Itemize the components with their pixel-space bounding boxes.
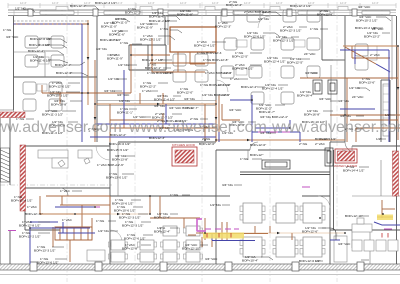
svg-text:BOP+10'-2 1/2": BOP+10'-2 1/2" [356, 19, 377, 23]
cabinets far right corridor [383, 84, 389, 136]
svg-text:BOP+12'-4": BOP+12'-4" [55, 63, 71, 67]
pipe VAC blue network [30, 24, 400, 264]
svg-text:BOP+16'-4": BOP+16'-4" [297, 94, 313, 98]
svg-text:BOP+12'-4": BOP+12'-4" [154, 216, 170, 220]
svg-text:3/4" VAC: 3/4" VAC [117, 93, 130, 97]
svg-text:12'-4": 12'-4" [212, 1, 219, 5]
svg-text:BOP+13'-2": BOP+13'-2" [364, 35, 380, 39]
svg-text:BOP+12'-4": BOP+12'-4" [226, 3, 242, 7]
svg-text:1/2" NG: 1/2" NG [15, 7, 26, 11]
svg-text:1" VAC: 1" VAC [142, 89, 153, 93]
columns on top wall [28, 9, 357, 16]
svg-text:1" NG BOP+12'-3: 1" NG BOP+12'-3 [197, 51, 222, 55]
svg-text:BOP+12'-4 1/2": BOP+12'-4 1/2" [232, 67, 253, 71]
svg-text:2" VAC: 2" VAC [370, 53, 381, 57]
chairs room top-centre cluster [173, 54, 208, 82]
svg-text:1" VAC: 1" VAC [27, 205, 38, 209]
svg-text:BOP+11'-6 1/2": BOP+11'-6 1/2" [30, 59, 51, 63]
svg-text:BOP+16'-6 1/2": BOP+16'-6 1/2" [109, 142, 130, 146]
svg-text:BOP+10'-4": BOP+10'-4" [242, 259, 258, 263]
grid line D [269, 2, 271, 282]
svg-text:3/4" NG: 3/4" NG [184, 97, 195, 101]
svg-text:1/2" NG: 1/2" NG [98, 229, 109, 233]
svg-text:12'-4": 12'-4" [148, 1, 155, 5]
svg-text:BOP+12'": BOP+12'" [250, 153, 263, 157]
svg-text:3/4" VAC: 3/4" VAC [6, 35, 19, 39]
svg-text:BOP+11'-8": BOP+11'-8" [177, 13, 193, 17]
svg-text:BOP+12'-8": BOP+12'-8" [122, 247, 138, 251]
svg-text:12'-4": 12'-4" [244, 1, 251, 5]
small desks bottom-centre-left rows [108, 226, 202, 262]
svg-text:3/4" NG: 3/4" NG [154, 104, 165, 108]
svg-text:BOP+12'-6 1/2": BOP+12'-6 1/2" [124, 237, 145, 241]
svg-text:1" NG: 1" NG [160, 27, 169, 31]
office desk top-bottom-left [38, 150, 92, 168]
svg-text:1" NG: 1" NG [310, 27, 319, 31]
svg-text:BOP+12'-10": BOP+12'-10" [182, 247, 200, 251]
chairs room top-left cluster 1 [25, 36, 64, 67]
window frames in band [40, 11, 390, 14]
svg-text:BOP+12'-4": BOP+12'-4" [317, 13, 333, 17]
magenta pipe F-shape [197, 219, 206, 232]
svg-text:BOP+12'-3": BOP+12'-3" [215, 25, 231, 29]
svg-text:1" VAC: 1" VAC [62, 218, 73, 222]
svg-text:BOP+12'-4 1/2": BOP+12'-4 1/2" [11, 199, 32, 203]
svg-text:BOP+12'-6 1/2": BOP+12'-6 1/2" [244, 35, 265, 39]
svg-text:BOP+12'-4": BOP+12'-4" [241, 85, 257, 89]
svg-text:BOP+12'-6": BOP+12'-6" [199, 142, 215, 146]
svg-text:BOP+12'-8 1/2": BOP+12'-8 1/2" [19, 224, 40, 228]
svg-text:BOP+12'-6": BOP+12'-6" [56, 71, 72, 75]
svg-text:3/4" VAC: 3/4" VAC [338, 242, 351, 246]
svg-text:BOP+11'-4 1/2": BOP+11'-4 1/2" [154, 98, 175, 102]
svg-text:3/4" NG: 3/4" NG [96, 47, 107, 51]
svg-text:BOP+12'-3 1/2": BOP+12'-3 1/2" [273, 39, 294, 43]
svg-text:BOP+11'-6": BOP+11'-6" [149, 15, 165, 19]
svg-text:BOP+13'-8": BOP+13'-8" [112, 158, 128, 162]
svg-text:BOP+12'-0 1/2": BOP+12'-0 1/2" [49, 85, 70, 89]
svg-text:3/4" VAC: 3/4" VAC [229, 108, 242, 112]
svg-text:BOP+10'-3 1/2": BOP+10'-3 1/2" [47, 94, 68, 98]
svg-text:BOP+12'-4 1/2": BOP+12'-4 1/2" [194, 44, 215, 48]
svg-text:BOP+12'-6": BOP+12'-6" [250, 143, 266, 147]
svg-text:1" NG: 1" NG [96, 219, 105, 223]
svg-text:BOP+12'-4": BOP+12'-4" [28, 49, 44, 53]
desk office lower-left [87, 250, 105, 261]
svg-text:BOP+13'-6 1/2": BOP+13'-6 1/2" [37, 261, 58, 265]
svg-text:BOP+10'-8": BOP+10'-8" [51, 103, 67, 107]
pipe CA magenta dashes [8, 132, 392, 231]
svg-text:3/4" VAC: 3/4" VAC [319, 97, 332, 101]
svg-text:12'-4": 12'-4" [20, 1, 27, 5]
wall top exterior band [8, 10, 396, 16]
svg-text:KITCHEN HOOD: KITCHEN HOOD [172, 143, 196, 147]
svg-text:12'-4": 12'-4" [372, 1, 379, 5]
svg-text:BOP+12'-3 1/2": BOP+12'-3 1/2" [280, 29, 301, 33]
svg-text:BOP+14'-4 1/2": BOP+14'-4 1/2" [343, 169, 364, 173]
svg-text:12'-4": 12'-4" [52, 1, 59, 5]
svg-text:BOP+11'-5": BOP+11'-5" [112, 21, 128, 25]
svg-text:1/2" NG: 1/2" NG [118, 63, 129, 67]
svg-text:BOP+12'-3": BOP+12'-3" [149, 136, 165, 140]
svg-text:BOP+12'-0": BOP+12'-0" [177, 91, 193, 95]
svg-text:1/2" NG: 1/2" NG [258, 17, 269, 21]
svg-text:BOP+15'-5 1/2": BOP+15'-5 1/2" [107, 148, 128, 152]
svg-text:1" VAC: 1" VAC [60, 189, 71, 193]
red rated wall vertical right edge [393, 151, 399, 196]
svg-text:BOP+12'-5": BOP+12'-5" [287, 61, 303, 65]
svg-text:2" VAC: 2" VAC [315, 142, 326, 146]
red ticks on highlight [207, 233, 388, 238]
chairs far right room [355, 44, 377, 70]
svg-text:BOP+12'-4 1/2": BOP+12'-4 1/2" [264, 60, 285, 64]
highlight yellow pipe far right [377, 215, 393, 221]
svg-text:1" NG: 1" NG [170, 193, 179, 197]
svg-text:www.advenser.com: www.advenser.com [0, 119, 122, 136]
svg-text:BOP+13'-3 1/2": BOP+13'-3 1/2" [34, 249, 55, 253]
svg-text:3/4" VAC: 3/4" VAC [205, 257, 218, 261]
dashed dark line top-left [13, 20, 88, 22]
svg-text:BOP+12'-4": BOP+12'-4" [70, 4, 86, 8]
grid line C [201, 2, 203, 282]
svg-text:BOP+11'-3 1/2": BOP+11'-3 1/2" [42, 113, 63, 117]
svg-text:BOP+11'-6": BOP+11'-6" [109, 33, 125, 37]
svg-text:2" NG: 2" NG [299, 142, 308, 146]
svg-text:BOP+13'-6": BOP+13'-6" [359, 81, 375, 85]
svg-text:BOP+16'-8": BOP+16'-8" [304, 113, 320, 117]
svg-text:1/2" NG: 1/2" NG [119, 99, 130, 103]
svg-text:12'-4": 12'-4" [276, 1, 283, 5]
svg-text:1" NG: 1" NG [120, 41, 129, 45]
fixture sink group right-centre [262, 80, 337, 169]
svg-text:BOP+12'-11": BOP+12'-11" [345, 214, 363, 218]
watermark row [0, 119, 400, 136]
svg-text:BOP+12'-2 1/2": BOP+12'-2 1/2" [140, 38, 161, 42]
columns on bottom wall [30, 262, 364, 271]
svg-text:2" NG: 2" NG [202, 137, 211, 141]
svg-text:BOP+12'-5": BOP+12'-5" [232, 55, 248, 59]
svg-text:3/4" VAC: 3/4" VAC [358, 5, 371, 9]
svg-text:3/4" VAC BOP+12'-7": 3/4" VAC BOP+12'-7" [169, 106, 198, 110]
svg-text:1" NG BOP+12'-8": 1" NG BOP+12'-8" [203, 58, 228, 62]
red rated wall vertical left [20, 145, 26, 211]
svg-text:BOP+11'-7 1/2": BOP+11'-7 1/2" [142, 58, 163, 62]
svg-text:3/4" NG: 3/4" NG [222, 183, 233, 187]
svg-text:12'-4": 12'-4" [116, 1, 123, 5]
centerline mid-left [0, 184, 112, 186]
svg-text:1" VAC BOP+12'-6": 1" VAC BOP+12'-6" [97, 163, 124, 167]
svg-text:24" VAC: 24" VAC [304, 52, 316, 56]
chairs room top-right cluster [221, 10, 320, 104]
svg-text:1" VAC: 1" VAC [230, 77, 241, 81]
pipe loop room top-centre [170, 27, 216, 52]
svg-text:BOP+13'-2 1/2": BOP+13'-2 1/2" [19, 235, 40, 239]
desk right-lower room [352, 218, 372, 232]
svg-text:BOP+12'-4 1/2": BOP+12'-4 1/2" [262, 87, 283, 91]
grid line B [134, 2, 136, 282]
svg-text:24" VAC: 24" VAC [352, 95, 364, 99]
red equipment box right [334, 149, 358, 168]
svg-text:BOP+12'-4": BOP+12'-4" [154, 230, 170, 234]
svg-text:www.advenser.com: www.advenser.com [271, 119, 400, 136]
svg-text:BOP+12'-1": BOP+12'-1" [145, 66, 161, 70]
counters bottom-right kitchen [334, 236, 398, 262]
svg-text:1" NG: 1" NG [3, 28, 12, 32]
stairwell left [1, 148, 10, 182]
pipe NG highlights [40, 20, 398, 233]
svg-text:24" VAC: 24" VAC [372, 27, 384, 31]
svg-text:BOP+12'-3 1/2": BOP+12'-3 1/2" [95, 1, 116, 5]
wall bottom exterior band [0, 264, 400, 270]
valve arrows [87, 57, 400, 234]
svg-text:12'-4": 12'-4" [340, 1, 347, 5]
svg-text:3/4" NG: 3/4" NG [338, 99, 349, 103]
door arcs [96, 16, 352, 242]
svg-text:3/4" NG: 3/4" NG [104, 89, 115, 93]
svg-text:BOP+12'-2": BOP+12'-2" [140, 85, 156, 89]
svg-text:1/2" NG: 1/2" NG [210, 203, 221, 207]
svg-text:BOP+12'-2 1/2": BOP+12'-2 1/2" [290, 4, 311, 8]
svg-text:BOP+11'-9": BOP+11'-9" [137, 26, 153, 30]
svg-text:BOP+12'-2": BOP+12'-2" [125, 11, 141, 15]
red equipment box kitchen [172, 143, 197, 166]
svg-text:BOP+12'-11": BOP+12'-11" [25, 212, 43, 216]
svg-text:BOP+12'-3 1/2": BOP+12'-3 1/2" [122, 224, 143, 228]
tables classroom bottom-centre [240, 203, 325, 257]
svg-text:12'-4": 12'-4" [180, 1, 187, 5]
svg-text:BOP+12'-3 1/2": BOP+12'-3 1/2" [119, 216, 140, 220]
svg-text:BOP+11'-1": BOP+11'-1" [117, 111, 133, 115]
pipe elbow classroom right [322, 228, 336, 240]
grid line A [66, 2, 68, 282]
svg-text:1" NG: 1" NG [240, 157, 249, 161]
svg-text:www.advenser.com: www.advenser.com [128, 119, 267, 136]
red rated wall horizontal left [0, 112, 25, 118]
svg-text:BOP+11'-9": BOP+11'-9" [107, 57, 123, 61]
chairs room top-left cluster 2 [23, 82, 62, 111]
svg-text:BOP+13'-0 1/2": BOP+13'-0 1/2" [106, 176, 127, 180]
svg-text:BOP+11'-0": BOP+11'-0" [101, 25, 117, 29]
svg-text:BOP+12'-6": BOP+12'-6" [302, 230, 318, 234]
grid line E [336, 2, 338, 282]
svg-text:BOP+11'-7": BOP+11'-7" [259, 110, 275, 114]
highlight yellow pipe section centre [203, 233, 244, 239]
dimension line top [8, 3, 396, 8]
